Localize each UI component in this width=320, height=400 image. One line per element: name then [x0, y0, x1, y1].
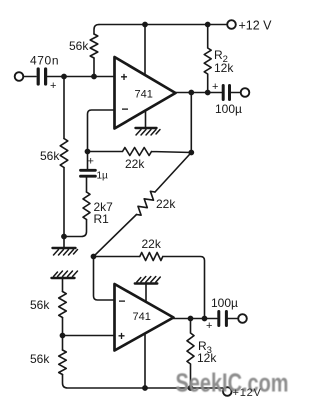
wire: lower op-amp output [174, 318, 217, 320]
capacitor 100u (bottom) [217, 312, 220, 326]
ground (below op-amp U1) [136, 128, 161, 135]
wire: 1u to 2k7 [86, 178, 88, 192]
svg-text:+: + [118, 329, 125, 343]
wire: diagonal from node to 22k [155, 153, 191, 193]
svg-text:−: − [122, 102, 129, 116]
svg-text:R1: R1 [94, 212, 110, 226]
op-amp U2 741 (bottom) [115, 284, 174, 351]
wire: top +12V rail [99, 24, 227, 26]
svg-text:56k: 56k [30, 298, 50, 312]
wire: cap to output terminal [231, 92, 241, 94]
wire: ground stub [63, 237, 65, 248]
ground (above lower 56k string) [52, 271, 78, 278]
wire: 56k to bottom rail [63, 375, 223, 389]
wire: 56k down to ground node [63, 168, 65, 237]
wire: ground stub into lower op-amp top edge [145, 284, 147, 303]
terminal: input (left) [15, 72, 24, 81]
terminal: output (top) [241, 88, 250, 97]
wire: op-amp - input routing [88, 110, 115, 152]
svg-text:12k: 12k [214, 61, 234, 75]
capacitor 1u [81, 169, 96, 172]
terminal: +12V (bottom) [223, 387, 232, 396]
wire: input to capacitor [23, 76, 36, 78]
wire: feedback vertical from output [190, 93, 192, 153]
wire: diagonal to node B [94, 215, 137, 257]
wire: op-amp output to terminal [176, 92, 222, 94]
resistor R2 12k [204, 26, 211, 93]
wire: node B down to - input of lower op-amp [94, 257, 115, 301]
svg-text:56k: 56k [69, 39, 89, 53]
svg-text:741: 741 [133, 311, 151, 323]
wire: to + input node [62, 318, 64, 351]
terminal: +12V (top) [227, 20, 236, 29]
wire: op-amp V- stub to ground [145, 111, 147, 128]
terminal: output (bottom) [238, 314, 247, 323]
wire: + input of lower op-amp [63, 335, 115, 337]
svg-text:1µ: 1µ [97, 171, 109, 182]
svg-text:+: + [206, 320, 212, 332]
resistor 56k (left-middle) [60, 139, 68, 168]
resistor R1 2k7 [83, 192, 90, 220]
svg-text:100µ: 100µ [211, 296, 238, 310]
svg-text:+: + [212, 81, 218, 93]
wire: input node down to 56k (left-middle) [63, 77, 65, 139]
ground (below R1/56k node) [53, 248, 78, 255]
capacitor 100u (top) [222, 86, 225, 100]
resistor 22k (bottom feedback) [94, 253, 205, 319]
resistor 56k (top-left, to +12V rail) [90, 34, 98, 58]
wire: V+ stub from rail into op-amp top edge [144, 25, 146, 76]
svg-text:22k: 22k [142, 237, 162, 251]
svg-text:22k: 22k [125, 157, 145, 171]
svg-text:+12 V: +12 V [239, 19, 273, 33]
svg-text:100µ: 100µ [215, 102, 242, 116]
svg-text:741: 741 [135, 89, 153, 101]
svg-text:+12V: +12V [233, 387, 262, 399]
wire: lower op-amp V- stub to bottom rail [144, 333, 146, 388]
resistor 22k (top feedback) [88, 148, 192, 156]
wire: 56k bottom to input node [93, 58, 95, 77]
wire: cap to output terminal [228, 318, 238, 320]
wire: feedback node to 1u cap [87, 152, 89, 170]
svg-text:+: + [50, 80, 56, 92]
svg-text:12k: 12k [197, 351, 217, 365]
wire: capacitor to op-amp + input [48, 76, 115, 78]
resistor R3 12k [187, 319, 194, 389]
resistor 56k (lower, bottom of pair) [59, 350, 67, 375]
resistor 22k (diagonal) [137, 191, 156, 215]
wire: rounded corner to 56k top-left [94, 25, 99, 35]
svg-text:−: − [119, 294, 126, 308]
op-amp U1 741 (top) [115, 57, 176, 129]
svg-text:470n: 470n [30, 54, 59, 68]
svg-text:22k: 22k [156, 197, 176, 211]
resistor 56k (lower, upper of pair) [59, 292, 67, 318]
wire: 2k7 bottom curve to ground node [64, 220, 87, 237]
svg-text:56k: 56k [40, 149, 60, 163]
capacitor C 470n [37, 69, 40, 84]
svg-text:+: + [88, 156, 94, 168]
svg-text:56k: 56k [30, 352, 50, 366]
wire: ground to 56k [62, 278, 64, 292]
ground (above lower op-amp) [135, 277, 161, 284]
svg-text:+: + [121, 70, 128, 84]
